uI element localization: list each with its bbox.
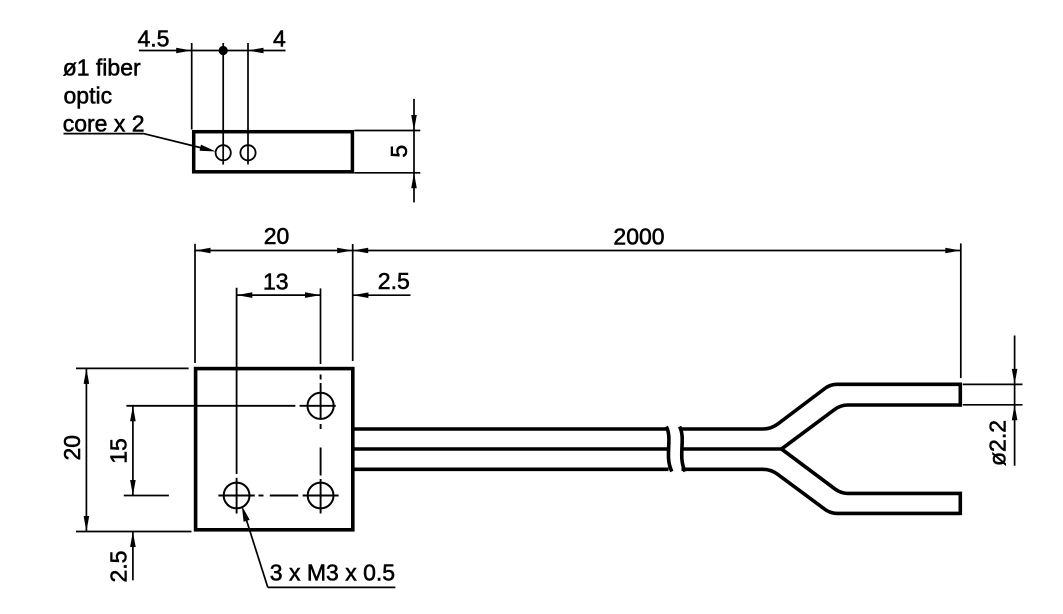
dimension line dia 2.2	[1014, 336, 1016, 466]
svg-text:2.5: 2.5	[378, 268, 410, 294]
dim 5: extension lines right of top view	[354, 130, 420, 132]
dim 5: dimension line	[413, 99, 415, 203]
centerline horizontal through bottom holes (dash-dot)	[218, 495, 254, 497]
dim 2.5 (top, hole to edge)	[353, 294, 411, 296]
mounting hole bottom-right	[308, 483, 334, 509]
svg-text:optic: optic	[64, 83, 113, 109]
svg-text:2.5: 2.5	[105, 551, 131, 583]
upper branch end cap	[958, 383, 962, 407]
fiber cable: bottom edge (left of break)	[354, 467, 669, 471]
dimension line 4.5 / 4	[139, 50, 286, 52]
arrows for 2000	[353, 248, 369, 254]
extension line at square right edge (top)	[352, 244, 354, 361]
centerline vertical through right holes (dash-dot)	[320, 375, 322, 380]
svg-text:4.5: 4.5	[138, 25, 170, 51]
dimension line 13	[237, 294, 321, 296]
svg-text:ø2.2: ø2.2	[985, 420, 1011, 466]
mounting hole top-right	[308, 393, 334, 419]
svg-text:2000: 2000	[613, 223, 664, 249]
lower branch end cap	[958, 492, 962, 516]
dim 2.5 bottom: line+arrow	[132, 532, 134, 581]
svg-text:3 x M3 x 0.5: 3 x M3 x 0.5	[270, 559, 395, 585]
svg-text:20: 20	[59, 435, 85, 461]
arrow at left edge (4.5)	[176, 48, 192, 54]
break symbol left S-curve	[666, 427, 672, 472]
cable middle line right of break up to fork vertex	[682, 447, 781, 451]
svg-text:13: 13	[263, 269, 289, 295]
break symbol right S-curve	[680, 427, 686, 472]
front view: sensor head square outline	[196, 369, 353, 530]
extension/center line through fiber hole 1	[222, 43, 224, 165]
leader arrowhead	[200, 145, 216, 152]
extension line: left edge of top view	[191, 43, 193, 130]
dot terminator at fiber hole 1 centerline	[219, 46, 228, 55]
cable bottom edge right of break, curving down to lower branch	[682, 469, 959, 513]
fork: lower branch inner edge	[782, 449, 959, 493]
svg-text:ø1 fiber: ø1 fiber	[63, 55, 141, 81]
dimension line 20 / 2000	[195, 250, 961, 252]
extension/center line through fiber hole 2	[247, 43, 249, 165]
mounting hole bottom-left	[224, 483, 250, 509]
svg-text:core x 2: core x 2	[63, 111, 145, 137]
extension line square bottom-left	[76, 531, 192, 533]
dimension line 20 (left)	[85, 368, 87, 531]
fiber core hole 2 (top view)	[240, 145, 255, 160]
extension line for 13 at hole column right	[320, 288, 322, 364]
svg-text:15: 15	[106, 438, 132, 464]
svg-text:4: 4	[273, 25, 286, 51]
svg-text:20: 20	[264, 223, 290, 249]
arrow at fiber hole 2 centerline (4)	[248, 48, 264, 54]
extension lines for dia 2.2	[963, 383, 1023, 385]
top view: sensor head body outline (side profile)	[194, 132, 353, 172]
cable top edge right of break, curving up to upper branch	[680, 384, 959, 429]
dimension line 15	[132, 406, 134, 496]
fork: upper branch inner edge	[782, 405, 959, 449]
leader from bottom-left hole to thread note	[245, 516, 268, 588]
extension line at top-right hole centerline (15)	[126, 405, 295, 407]
arrows for 20	[195, 248, 211, 254]
centerline vertical through bottom-left hole + 13-dim extension	[236, 288, 238, 474]
extension line at bottom holes centerline (15)	[124, 495, 169, 497]
leader line from label to fiber hole 1	[64, 133, 144, 135]
extension line at fiber end (2000 right)	[960, 243, 962, 378]
extension line at square left edge (top)	[194, 244, 196, 363]
fiber core hole 1 (top view)	[216, 145, 231, 160]
crosshair horizontal of top-right hole	[300, 405, 336, 407]
fiber cable: top edge (left of break)	[354, 427, 667, 431]
extension line square top-left	[76, 367, 189, 369]
fiber cable: middle line (left of break)	[354, 447, 669, 451]
svg-text:5: 5	[386, 145, 412, 158]
dim 5 arrows	[411, 115, 417, 131]
